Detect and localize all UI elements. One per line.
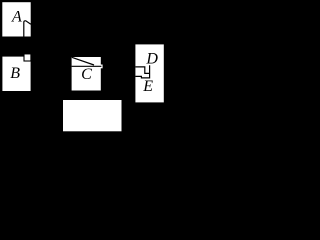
bottom window [63,100,122,131]
diagonal scribble in C [72,57,94,65]
svg-text:E: E [142,78,153,95]
svg-text:C: C [81,66,92,83]
tab on C right edge [100,65,102,69]
horizontal line in C [72,65,102,67]
svg-text:D: D [145,51,158,68]
svg-text:B: B [10,65,20,82]
scribble in A [24,21,31,37]
badge square on B top-right [24,54,31,61]
window A [2,2,30,36]
window D/E [135,44,163,102]
window B [2,57,30,91]
window C [72,57,101,91]
svg-text:A: A [11,9,22,26]
stepped scribble in D/E [135,67,149,74]
